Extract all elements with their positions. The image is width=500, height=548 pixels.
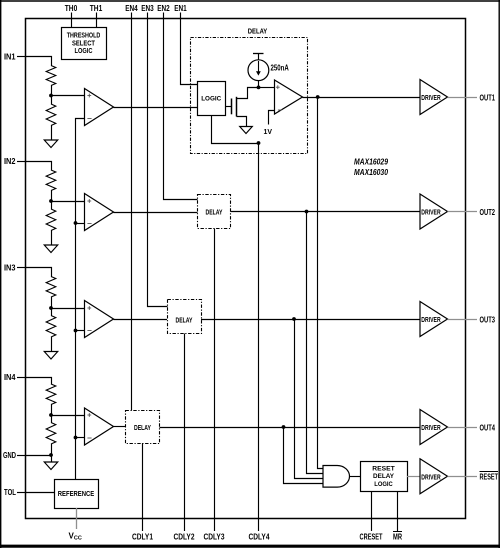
delay box row3 (168, 300, 202, 334)
wire CRESET (371, 492, 373, 532)
pin TOL (4, 487, 26, 497)
pin EN1 (174, 3, 187, 13)
svg-text:EN3: EN3 (141, 3, 154, 13)
wire U2 output (114, 212, 198, 214)
wire reference tap U4 (76, 437, 85, 439)
pin OUT2 (448, 207, 496, 217)
pin CRESET (360, 532, 384, 542)
svg-text:OUT1: OUT1 (480, 92, 496, 102)
svg-text:MAX16030: MAX16030 (354, 168, 388, 177)
svg-text:CDLY2: CDLY2 (174, 532, 195, 542)
wire EN3 (148, 13, 168, 307)
wire row4 to AND (284, 428, 324, 484)
node delay cap bottom (257, 141, 261, 145)
comparator U6 (275, 80, 303, 114)
wire IN1 input (26, 57, 52, 66)
pin IN4 (4, 372, 26, 382)
svg-text:DRIVER: DRIVER (421, 315, 441, 324)
svg-text:IN2: IN2 (4, 156, 16, 166)
wire CDLY3 (214, 229, 216, 532)
wire reference tap U2 (76, 223, 85, 225)
label 250nA (271, 63, 289, 72)
delay block dashed box (191, 38, 308, 154)
pin EN3 (141, 3, 154, 13)
wire EN2 (164, 13, 198, 200)
svg-text:THRESHOLD: THRESHOLD (67, 33, 101, 40)
svg-text:DRIVER: DRIVER (421, 423, 441, 432)
ground symbol IN2 divider (44, 245, 58, 253)
wire row3 to AND (295, 320, 324, 479)
pin RESET (448, 472, 499, 482)
wire EN4 (131, 13, 133, 411)
wire row1 to AND (318, 98, 324, 469)
wire node to Q1 drain (237, 88, 259, 99)
wire CDLY2 (184, 334, 186, 532)
node delay cap top (257, 86, 261, 90)
svg-text:IN1: IN1 (4, 52, 16, 62)
wire delay3 output row3 (201, 319, 420, 321)
node row1 (316, 95, 320, 99)
driver buffer OUT3 (420, 302, 448, 337)
transistor Q1 (226, 97, 247, 127)
wire CDLY4 (258, 143, 260, 531)
wire U4 output (114, 426, 126, 428)
svg-text:250nA: 250nA (271, 63, 289, 72)
wire IN3 tap to comparator (51, 308, 85, 310)
svg-text:CDLY4: CDLY4 (249, 532, 270, 542)
svg-text:IN3: IN3 (4, 263, 16, 273)
comparator U3 (85, 301, 114, 338)
wire IN3 input (26, 268, 52, 277)
wire logic to cap node (212, 116, 259, 144)
wire GND (26, 455, 52, 457)
pin EN4 (125, 3, 138, 13)
pin OUT4 (448, 422, 496, 432)
pin TH1 (90, 3, 103, 28)
svg-text:CDLY3: CDLY3 (204, 532, 225, 542)
node row3 (292, 317, 296, 321)
pin CDLY3 (204, 532, 225, 542)
svg-text:EN1: EN1 (174, 3, 187, 13)
svg-text:TH1: TH1 (90, 3, 103, 13)
svg-text:1V: 1V (264, 129, 273, 136)
wire U1 output to logic (114, 107, 198, 109)
svg-text:OUT3: OUT3 (480, 314, 496, 324)
node reference U4 (74, 436, 78, 440)
wire row2 to AND (307, 212, 324, 474)
pin GND (3, 450, 26, 460)
ground symbol IN1 divider (44, 140, 58, 148)
delay block DELAY title (248, 29, 268, 36)
ground symbol IN3 divider (44, 352, 58, 360)
pin TH0 (65, 3, 78, 28)
wire EN1 (181, 13, 198, 85)
svg-text:DELAY: DELAY (176, 318, 193, 325)
svg-text:DELAY: DELAY (248, 29, 268, 36)
pin CDLY4 (249, 532, 270, 542)
svg-text:LOGIC: LOGIC (75, 48, 93, 55)
wire IN2 input (26, 162, 52, 171)
pin CDLY1 (132, 532, 153, 542)
wire I1 to node (258, 81, 260, 88)
svg-text:TOL: TOL (4, 487, 16, 497)
wire TOL (26, 492, 55, 494)
pin VCC (69, 508, 82, 542)
wire IN1 tap to comparator (51, 95, 85, 97)
wire IN4 input (26, 378, 52, 385)
svg-text:EN4: EN4 (125, 3, 138, 13)
svg-text:DRIVER: DRIVER (421, 93, 441, 102)
node IN2 tap (49, 199, 53, 203)
svg-text:DELAY: DELAY (373, 473, 394, 480)
node row2 (305, 210, 309, 214)
node IN3 tap (49, 306, 53, 310)
svg-text:LOGIC: LOGIC (374, 481, 393, 488)
driver buffer OUT1 (420, 80, 448, 115)
resistor divider IN1 lower (46, 96, 56, 141)
AND gate (323, 466, 350, 488)
wire delay4 output row4 (160, 427, 421, 429)
current source I1 rail (253, 53, 264, 60)
wire AND to reset logic (350, 476, 360, 478)
svg-text:LOGIC: LOGIC (201, 96, 221, 103)
svg-text:RESET: RESET (372, 465, 395, 472)
resistor divider IN1 upper (46, 66, 56, 96)
node IN1 tap (49, 94, 53, 98)
wire U6 output row1 (303, 97, 421, 99)
pin CDLY2 (174, 532, 195, 542)
wire reference tap U3 (76, 330, 85, 332)
wire CDLY1 (142, 443, 144, 531)
svg-text:DELAY: DELAY (206, 210, 223, 217)
resistor divider IN4 upper (46, 384, 56, 415)
ground symbol IN4 divider (44, 462, 58, 470)
delay box row4 (126, 411, 160, 444)
current source I1 (248, 60, 269, 81)
threshold select logic box (62, 28, 107, 60)
resistor divider IN2 lower (46, 201, 56, 245)
node IN4 tap (49, 413, 53, 417)
driver buffer OUT2 (420, 194, 448, 229)
pin IN2 (4, 156, 26, 166)
svg-text:MAX16029: MAX16029 (354, 157, 388, 166)
svg-text:EN2: EN2 (157, 3, 170, 13)
wire reference to U1 inverting input (76, 119, 85, 480)
svg-text:CDLY1: CDLY1 (132, 532, 153, 542)
label MAX16029 MAX16030 (354, 157, 388, 177)
ground symbol Q1 source (240, 127, 253, 134)
svg-text:DRIVER: DRIVER (421, 208, 441, 217)
reference box (55, 480, 99, 509)
svg-text:GND: GND (3, 450, 16, 460)
wire MR (397, 492, 399, 532)
svg-text:DELAY: DELAY (134, 425, 151, 432)
delay box row2 (198, 195, 231, 229)
svg-text:OUT2: OUT2 (480, 207, 496, 217)
pin IN1 (4, 52, 26, 62)
svg-text:TH0: TH0 (65, 3, 78, 13)
label 1V (264, 129, 273, 136)
wire 1V to U6 inverting input (269, 111, 275, 125)
svg-text:MR: MR (393, 532, 402, 542)
pin IN3 (4, 263, 26, 273)
node IN4 divider to GND (49, 453, 53, 457)
comparator U1 (85, 89, 114, 126)
wire IN2 tap to comparator (51, 201, 85, 203)
driver buffer RESET (420, 459, 448, 494)
svg-text:SELECT: SELECT (72, 40, 96, 47)
reset delay logic box (361, 462, 408, 492)
wire delay2 output row2 (231, 211, 421, 213)
svg-text:CRESET: CRESET (360, 532, 384, 542)
node reference U3 (74, 329, 78, 333)
driver buffer OUT4 (420, 410, 448, 445)
node reference U2 (74, 221, 78, 225)
pin MR (393, 532, 402, 542)
resistor divider IN2 upper (46, 170, 56, 201)
wire U3 output (114, 319, 168, 321)
node row4 (282, 425, 286, 429)
pin OUT1 (448, 92, 496, 102)
pin EN2 (157, 3, 170, 13)
svg-text:RESET: RESET (480, 472, 499, 482)
resistor divider IN3 lower (46, 308, 56, 352)
pin OUT3 (448, 314, 496, 324)
wire node to comparator U6 (259, 87, 275, 89)
svg-text:REFERENCE: REFERENCE (58, 491, 95, 498)
comparator U4 (85, 408, 114, 445)
svg-text:OUT4: OUT4 (480, 422, 496, 432)
logic box U5 (198, 82, 226, 116)
resistor divider IN3 upper (46, 277, 56, 309)
svg-text:DRIVER: DRIVER (421, 472, 441, 481)
wire reset logic to driver (407, 476, 420, 478)
wire IN4 tap to comparator (51, 415, 85, 417)
resistor divider IN4 lower (46, 415, 56, 462)
svg-text:IN4: IN4 (4, 372, 16, 382)
comparator U2 (85, 194, 114, 231)
